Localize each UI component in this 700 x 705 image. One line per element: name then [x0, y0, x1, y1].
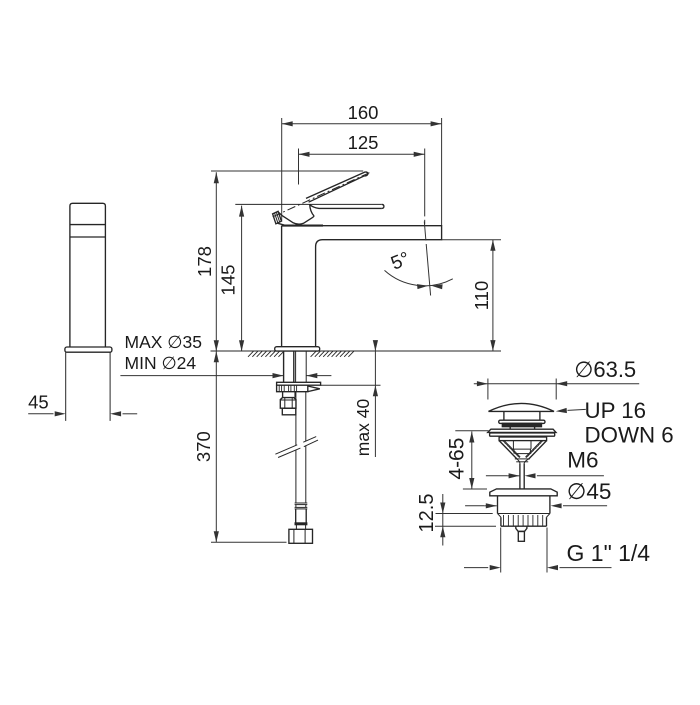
dimension 4-65 extension bottom [463, 488, 487, 490]
supply hose upper segment [295, 392, 297, 446]
side view under-counter body left edge [65, 352, 67, 421]
handle raised lever top edge [306, 172, 365, 199]
handle cap top connector [278, 212, 282, 216]
hose ferrule body [295, 509, 297, 523]
faucet front base flange [275, 347, 320, 351]
drain cone hatch right [541, 440, 544, 443]
svg-text:MAX ∅35: MAX ∅35 [125, 332, 203, 352]
pipe break line A [275, 445, 297, 454]
svg-text:12.5: 12.5 [416, 494, 438, 533]
hose ferrule band 2 [295, 506, 308, 508]
svg-text:45: 45 [28, 392, 49, 413]
drain standoffs [509, 427, 511, 429]
svg-text:max 40: max 40 [353, 399, 373, 457]
supply hose upper left line [295, 351, 297, 382]
dimension max40 reference line washer bottom [321, 384, 381, 386]
5 degree arc [385, 270, 453, 285]
drain body shoulder [498, 513, 550, 515]
spout outlet centerline [424, 149, 426, 217]
drain bottom flange [490, 489, 557, 496]
5 degree tilted line lower [426, 244, 430, 296]
washer wedge [308, 386, 320, 392]
svg-text:178: 178 [194, 246, 215, 277]
stud neck [282, 392, 284, 398]
dimension Ø45 leader left [465, 505, 484, 507]
svg-text:∅45: ∅45 [567, 479, 612, 504]
drain cone cup [512, 441, 514, 450]
handle bowl [282, 215, 314, 224]
drain stem [519, 463, 521, 489]
dimension 178 line [215, 172, 217, 351]
side view faucet column [70, 203, 106, 347]
svg-text:110: 110 [471, 281, 492, 311]
dimension 160 line [282, 123, 442, 125]
hose ferrule thick band [295, 523, 307, 525]
dimension 160 right extension line [441, 118, 443, 226]
5 degree arc left arrowhead [417, 284, 428, 289]
threaded stud right line [293, 351, 295, 382]
svg-text:MIN ∅24: MIN ∅24 [125, 353, 197, 373]
dimension Ø45 leader right [551, 503, 562, 508]
handle raised lever round tip [364, 172, 368, 176]
drain collar thread lines [503, 515, 505, 526]
dimension 160 left extension line [281, 118, 283, 222]
side view base flange [65, 347, 112, 352]
dimension 110 line [492, 240, 494, 351]
svg-text:∅63.5: ∅63.5 [574, 357, 636, 382]
dimension max40 vertical line [374, 341, 376, 457]
drain top flange A [488, 429, 556, 432]
drain seal bar [503, 424, 542, 427]
handle lever bar round tip [382, 204, 384, 208]
dimension 178 top extension line [211, 170, 363, 172]
svg-text:145: 145 [217, 265, 238, 296]
hole diameter leader right [306, 375, 331, 377]
side view spout top line [70, 224, 106, 226]
faucet front body outline [282, 226, 442, 347]
threaded stud left line [283, 351, 285, 382]
label UP 16 leader arrow [556, 408, 567, 413]
drain collar bottom [501, 525, 547, 527]
handle horizontal lever bottom edge [310, 205, 382, 209]
nut lower collar [282, 408, 296, 415]
drain cone inner left [504, 441, 520, 457]
hole diameter leader left [120, 375, 283, 377]
svg-text:DOWN 6: DOWN 6 [585, 422, 674, 447]
counter line [211, 350, 502, 352]
dimension 12.5 vertical line [442, 494, 444, 546]
mounting washer [277, 382, 321, 385]
counter hatching right [311, 351, 317, 357]
drain body [497, 496, 499, 514]
side view spout bottom line [70, 236, 106, 238]
drain cone bottom taper [515, 458, 530, 460]
dimension G 1-1/4 extension lines [500, 528, 502, 573]
dimension 45 line [28, 413, 53, 415]
dimension 125 line [299, 153, 425, 155]
supply hose upper right line [305, 351, 307, 382]
faucet body top thick segment [282, 225, 323, 227]
drain cone inner right [526, 441, 542, 457]
drain collar sides [500, 517, 502, 526]
handle raised lever bottom edge [309, 176, 365, 202]
5 degree arc right arrowhead [431, 284, 442, 289]
hose end nut [289, 529, 313, 543]
dimension 370 line [215, 351, 217, 542]
pipe break line B [278, 448, 300, 457]
handle end cap inner line [275, 213, 278, 223]
dimension 12.5 extension lines [436, 513, 493, 515]
dimension 63.5 line [474, 383, 639, 385]
drain top flange B [490, 433, 555, 436]
dimension 4-65 line [471, 432, 473, 490]
drain bar3 [499, 437, 546, 441]
svg-text:125: 125 [348, 132, 379, 153]
drain cone outer right [529, 441, 547, 460]
dimension 370 bottom extension line [211, 541, 287, 543]
dimension 125 left extension line [298, 149, 300, 185]
drain cone outer left [499, 441, 517, 460]
svg-text:370: 370 [193, 431, 214, 462]
dimension 145 line [241, 206, 243, 352]
svg-text:M6: M6 [567, 448, 598, 473]
5 degree tilted line upper [424, 222, 426, 241]
dimension 110 extension line spout bottom [442, 239, 501, 241]
svg-text:160: 160 [348, 102, 379, 123]
dimension G 1-1/4 line [464, 567, 488, 569]
dimension M6 leader [486, 475, 507, 477]
dimension 63.5 extension lines [487, 379, 489, 400]
drain cap dome [489, 403, 555, 411]
handle right edge curve [310, 205, 314, 217]
svg-text:4-65: 4-65 [445, 438, 468, 480]
hose ferrule band 1 [295, 502, 308, 504]
drain cap neck [503, 411, 505, 420]
drain M6 screw tip [518, 531, 524, 541]
side view under-counter body right edge [109, 352, 111, 421]
drain ring bar [499, 420, 545, 423]
svg-text:G 1" 1/4: G 1" 1/4 [567, 540, 651, 566]
hose ferrule lower [295, 525, 297, 529]
handle lever bar top line with 145 extension [235, 203, 381, 205]
mounting nut [280, 398, 296, 409]
counter hatching left [248, 351, 254, 357]
supply hose lower segment [295, 450, 297, 503]
dimension 4-65 extension top [455, 430, 488, 432]
handle centerline dash-dot [273, 173, 370, 217]
svg-text:UP 16: UP 16 [585, 398, 647, 423]
washer under block [277, 385, 308, 392]
handle cap to body line [278, 223, 287, 226]
drain collar chamfers [498, 514, 501, 518]
drain cone hatch left [502, 440, 505, 443]
handle end cap [273, 211, 282, 224]
drain stub [516, 526, 527, 531]
